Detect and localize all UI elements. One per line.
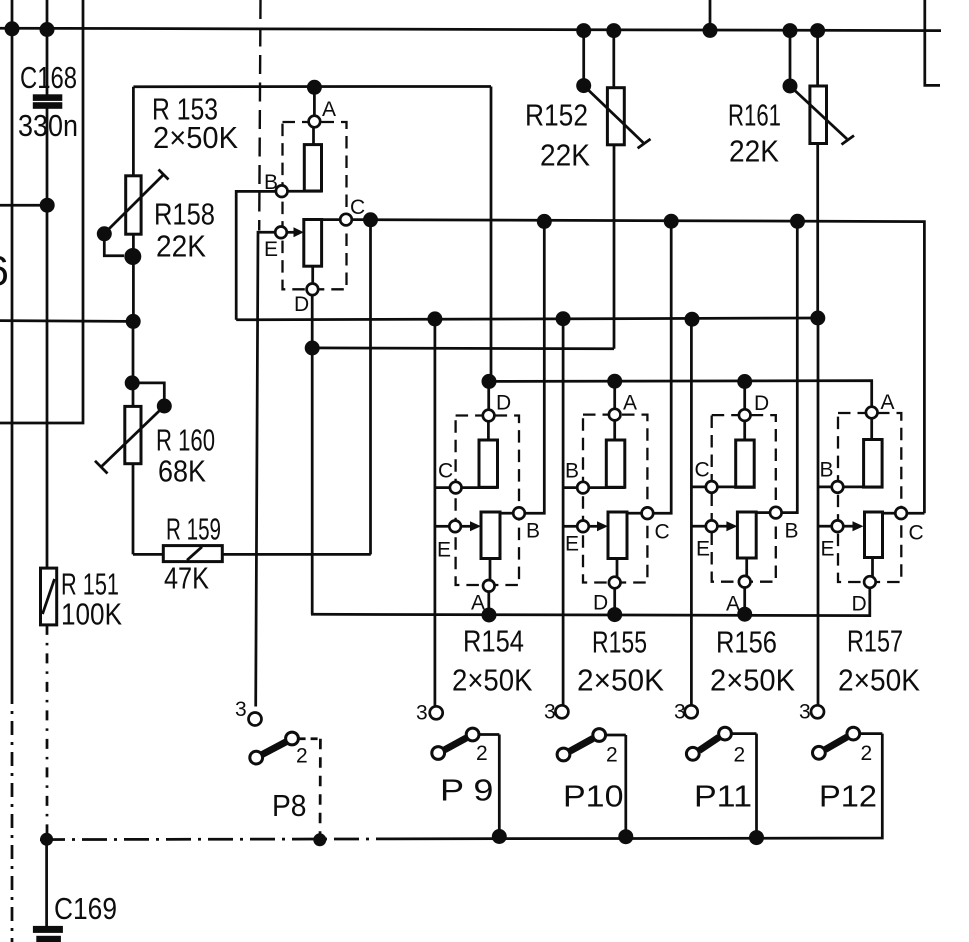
- svg-text:A: A: [471, 592, 485, 615]
- dual potentiometer R156: [691, 374, 781, 622]
- svg-text:2: 2: [734, 744, 746, 767]
- wire W5 y381: [491, 381, 872, 407]
- wire R153 D down to W4/W6: [311, 295, 314, 614]
- svg-text:B: B: [565, 460, 579, 483]
- svg-text:C: C: [909, 522, 924, 545]
- svg-text:E: E: [437, 539, 451, 562]
- node R154 B on W3: [537, 214, 552, 229]
- svg-text:C168: C168: [20, 61, 77, 95]
- wire W7 solid right: [392, 734, 882, 839]
- svg-text:R 159: R 159: [166, 513, 221, 547]
- node R153 C on W3: [363, 212, 378, 227]
- svg-text:R157: R157: [847, 625, 903, 659]
- switch P9: [430, 706, 507, 844]
- wire W3: [352, 220, 924, 514]
- svg-text:D: D: [593, 592, 608, 615]
- svg-text:3: 3: [674, 701, 686, 724]
- svg-text:R154: R154: [463, 625, 524, 659]
- svg-text:2×50K: 2×50K: [577, 664, 664, 698]
- svg-text:68K: 68K: [158, 455, 206, 489]
- wire top bus W1: [0, 28, 941, 30]
- pin letters R156: [695, 392, 799, 616]
- contact numbers 2: [296, 742, 872, 768]
- wire W7 dash-dot left: [40, 838, 392, 841]
- wire vertical V2 C168 branch: [46, 0, 49, 95]
- wire vertical V1 lower dash-dot: [11, 690, 14, 942]
- svg-text:E: E: [264, 238, 278, 261]
- wire V2 below C168 to R151: [46, 108, 49, 568]
- svg-text:R 160: R 160: [156, 424, 215, 458]
- svg-text:3: 3: [416, 702, 428, 725]
- wire R153 E down to P8 pole: [256, 232, 276, 706]
- svg-text:R152: R152: [525, 99, 588, 133]
- pin letters R153: [264, 98, 365, 316]
- svg-text:100K: 100K: [61, 598, 122, 632]
- svg-text:E: E: [821, 538, 835, 561]
- wire W6 pot bottom bus: [311, 588, 870, 616]
- svg-text:B: B: [526, 520, 540, 543]
- node R154 strap on W-B: [427, 311, 442, 326]
- wire stub y205: [0, 204, 47, 207]
- dual potentiometer R155: [563, 374, 653, 622]
- svg-text:B: B: [264, 171, 278, 194]
- switch P10: [555, 705, 633, 844]
- svg-text:6: 6: [0, 247, 9, 294]
- svg-text:R155: R155: [592, 626, 647, 660]
- wire R157 strap B-E to R161 node and P12 pole: [817, 318, 820, 706]
- svg-text:P8: P8: [272, 789, 307, 823]
- wire R156 B up to W3: [782, 221, 798, 512]
- svg-text:2×50K: 2×50K: [153, 121, 238, 155]
- svg-text:A: A: [322, 98, 336, 121]
- resistor R152: [576, 23, 650, 349]
- dual potentiometer R153: [275, 80, 352, 295]
- node x710-W1: [703, 23, 718, 38]
- wire W4 y348: [312, 347, 614, 351]
- switch P8: [249, 713, 327, 847]
- svg-text:3: 3: [235, 698, 247, 721]
- svg-text:R158: R158: [154, 198, 215, 232]
- svg-text:E: E: [696, 538, 710, 561]
- svg-text:3: 3: [544, 701, 556, 724]
- resistor R151: [40, 568, 57, 846]
- svg-text:D: D: [754, 392, 769, 415]
- svg-text:E: E: [565, 533, 579, 556]
- resistor R159: [133, 546, 371, 562]
- pole numbers 3: [235, 698, 811, 725]
- dual potentiometer R157: [818, 407, 924, 588]
- wire R156 strap C-E to bus and P11 pole: [690, 319, 693, 705]
- svg-text:A: A: [726, 593, 740, 616]
- wire R153 B to bus: [236, 191, 276, 319]
- node R156 strap on W-B: [685, 312, 700, 327]
- node R153 D on W4: [305, 341, 320, 356]
- svg-text:2: 2: [606, 744, 618, 767]
- capacitor C169: [33, 839, 63, 942]
- svg-text:B: B: [785, 520, 799, 543]
- pin letters R155: [565, 392, 670, 615]
- wire vertical V1 left: [11, 0, 14, 690]
- svg-text:A: A: [881, 391, 895, 414]
- svg-text:C: C: [695, 459, 710, 482]
- svg-text:22K: 22K: [156, 230, 206, 264]
- wire R154 B up to W3: [525, 221, 545, 513]
- svg-text:C: C: [350, 196, 365, 219]
- svg-text:2: 2: [861, 742, 873, 765]
- node stub-V2: [40, 198, 55, 213]
- wire R154 strap C-E to bus and P9 pole: [434, 319, 437, 707]
- svg-text:D: D: [852, 593, 867, 616]
- svg-text:2: 2: [476, 742, 488, 765]
- resistor R158: [0, 87, 169, 329]
- svg-text:R 151: R 151: [61, 568, 119, 602]
- wire long dashed line DL: [259, 0, 260, 231]
- svg-text:C: C: [655, 521, 670, 544]
- node R156 B on W3: [790, 214, 805, 229]
- node V1-W1: [5, 21, 20, 36]
- svg-text:B: B: [820, 459, 834, 482]
- svg-text:330n: 330n: [18, 109, 78, 143]
- node R155 C on W3: [664, 214, 679, 229]
- switch P11: [685, 705, 764, 845]
- svg-text:P12: P12: [819, 780, 877, 814]
- svg-text:22K: 22K: [540, 139, 590, 173]
- svg-text:R161: R161: [728, 99, 781, 133]
- pin letters R154: [437, 392, 540, 615]
- switch P12: [811, 705, 882, 759]
- svg-text:47K: 47K: [164, 562, 209, 596]
- capacitor C168: [33, 94, 63, 108]
- wire R155 C up to W3: [653, 221, 671, 513]
- svg-text:D: D: [496, 392, 511, 415]
- resistor R161: [783, 23, 855, 325]
- svg-text:C169: C169: [54, 892, 117, 926]
- wire top stub x710: [709, 0, 712, 30]
- pin letters R157: [820, 391, 924, 616]
- wire vertical V3: [0, 0, 83, 423]
- wire R153 C junction down to R159: [369, 220, 372, 555]
- svg-text:3: 3: [799, 701, 811, 724]
- svg-text:2×50K: 2×50K: [452, 664, 533, 698]
- wire W2: [133, 85, 491, 88]
- svg-text:22K: 22K: [729, 135, 779, 169]
- svg-text:P10: P10: [563, 780, 624, 814]
- svg-text:D: D: [294, 293, 309, 316]
- svg-text:R156: R156: [716, 626, 777, 660]
- svg-text:P11: P11: [694, 780, 752, 814]
- wire W-B bus y319: [236, 318, 818, 320]
- svg-text:2×50K: 2×50K: [710, 664, 795, 698]
- resistor R160: [95, 322, 172, 555]
- node V2-W1: [40, 22, 55, 37]
- dual potentiometer R154: [435, 374, 525, 623]
- wire top-right corner L: [925, 0, 940, 85]
- svg-text:C: C: [438, 460, 453, 483]
- svg-text:2: 2: [296, 745, 308, 768]
- node R155 strap on W-B: [556, 311, 571, 326]
- svg-text:P 9: P 9: [440, 774, 494, 808]
- svg-text:A: A: [623, 392, 637, 415]
- wire R155 strap B-E to bus and P10 pole: [562, 319, 565, 706]
- svg-text:2×50K: 2×50K: [838, 664, 920, 698]
- wire R153-A bus down to R154 D: [490, 87, 493, 382]
